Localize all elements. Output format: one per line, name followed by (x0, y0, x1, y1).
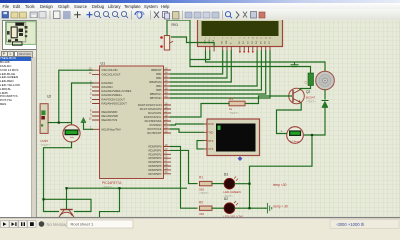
svg-text:R2: R2 (199, 200, 203, 204)
svg-text:RB3/PGM: RB3/PGM (149, 80, 162, 84)
wire mid-bottom branch (99, 188, 119, 217)
svg-text:BC547: BC547 (306, 96, 316, 100)
title bar (0, 0, 400, 3)
svg-text:RB5: RB5 (156, 88, 162, 92)
svg-text:OSC1/CLKIN: OSC1/CLKIN (101, 68, 117, 72)
svg-text:RC0/T1OSO/T1CKI: RC0/T1OSO/T1CKI (137, 103, 161, 107)
svg-text:-3000 +1000 th: -3000 +1000 th (336, 221, 365, 226)
svg-text:RA5/AN4/SS/C2OUT: RA5/AN4/SS/C2OUT (101, 102, 127, 106)
wire R2 to D2 (212, 207, 224, 209)
svg-text:<TEXT>: <TEXT> (229, 111, 239, 115)
wire D3 to column (234, 183, 249, 185)
svg-text:RC2/CCP1: RC2/CCP1 (148, 111, 162, 115)
svg-text:R1: R1 (199, 176, 203, 180)
wire VT1 RTS-CTS loop (197, 141, 203, 149)
virtual terminal VT1 (203, 119, 260, 156)
wire LCD VSS to ground rail (205, 51, 325, 71)
edit area left border (36, 20, 37, 217)
svg-text:RC7/RX/DT: RC7/RX/DT (147, 131, 162, 135)
wire diode to ammeter node (303, 108, 325, 135)
svg-text:Volts: Volts (69, 136, 73, 139)
wire voltmeter to Q1 (43, 142, 71, 212)
junction (ammeter node) (310, 134, 312, 136)
ground (top rail) (291, 62, 298, 67)
junction LM35 node (57, 122, 59, 124)
junction D3 column (248, 183, 250, 185)
svg-text:<TEXT>: <TEXT> (199, 191, 209, 195)
wire LCD D5 to RB5 (170, 51, 261, 90)
U1 left pin numbers (88, 67, 91, 130)
svg-text:LM35: LM35 (40, 139, 48, 143)
LCD1 pin stubs (205, 47, 270, 52)
LCD1 pin numbers (204, 38, 270, 40)
svg-text:RV1: RV1 (171, 23, 178, 27)
wire LCD D7 to RB7 (170, 51, 270, 98)
unconnected pin markers D0-D3 (239, 51, 254, 53)
wire D2 to ground (234, 207, 264, 209)
svg-text:12: 12 (260, 38, 262, 40)
inductor L1 (motor coil) (303, 73, 313, 86)
svg-text:RD6/PSP6: RD6/PSP6 (148, 168, 162, 172)
wire RA0 tap (71, 83, 92, 123)
svg-text:RC4/SDI/SDA: RC4/SDI/SDA (144, 119, 161, 123)
svg-text:RC6/TX/CK: RC6/TX/CK (147, 127, 161, 131)
wire node to OSC1 (58, 70, 92, 122)
svg-text:RE0/AN5/RD: RE0/AN5/RD (101, 110, 117, 114)
wire motor bottom / diode branch (324, 90, 326, 99)
wire ammeter node down to LED column (249, 135, 312, 208)
motor M1 (315, 71, 334, 90)
power arrow to MCLR (81, 118, 93, 130)
transistor Q2 BC547 (288, 88, 315, 104)
U1 right pin labels (137, 68, 161, 176)
svg-text:U2: U2 (47, 95, 51, 99)
svg-text:OSC2/CLKOUT: OSC2/CLKOUT (101, 73, 120, 77)
svg-text:Q2: Q2 (306, 90, 310, 94)
svg-text:7: 7 (239, 38, 240, 40)
svg-text:RB0/INT: RB0/INT (151, 68, 162, 72)
svg-text:RD2/PSP2: RD2/PSP2 (148, 152, 162, 156)
P L buttons + DEVICES header (1, 51, 8, 58)
wire LM35 out to voltmeter (48, 123, 71, 125)
LCD display LCD1 LM016L (197, 19, 282, 47)
wire Q1 right to mid rail (43, 199, 91, 211)
svg-text:RD4/PSP4: RD4/PSP4 (148, 160, 162, 164)
menu bar (0, 3, 400, 10)
svg-text:VDD: VDD (208, 39, 210, 44)
junction Q1 base rail (65, 187, 67, 189)
svg-text:D2: D2 (223, 197, 227, 201)
LED D2 LED-YELLOW (223, 197, 243, 219)
svg-text:U1: U1 (100, 62, 105, 66)
svg-text:RC5/SDO: RC5/SDO (149, 123, 161, 127)
voltmeter VM1 (62, 121, 79, 142)
svg-text:RD5/PSP5: RD5/PSP5 (148, 164, 162, 168)
wire RV1 top to VDD rail (167, 20, 210, 60)
resistor R2 (199, 200, 212, 216)
svg-text:13: 13 (264, 38, 266, 40)
svg-text:RA2/AN2/VREF-/CVREF: RA2/AN2/VREF-/CVREF (101, 89, 131, 93)
svg-text:8: 8 (243, 38, 244, 40)
svg-text:VSS: VSS (204, 39, 206, 44)
svg-text:temp <30: temp <30 (273, 183, 287, 187)
svg-text:R3: R3 (229, 97, 233, 101)
svg-text:11: 11 (256, 38, 258, 40)
svg-text:14: 14 (268, 38, 270, 40)
resistor R1 (199, 176, 212, 196)
ammeter AM1 (280, 127, 303, 144)
wire RD1 to R1 (170, 150, 197, 183)
potentiometer RV1 (160, 23, 178, 50)
wire RC6/TX to VT1 RXD (170, 124, 203, 125)
svg-text:MCLR/Vpp/THV: MCLR/Vpp/THV (101, 127, 120, 131)
junction D2 column (248, 207, 250, 209)
svg-text:+: + (280, 130, 282, 134)
toolbar (0, 9, 400, 22)
U1 left pin labels (101, 68, 131, 131)
svg-text:DC Amps: DC Amps (290, 140, 300, 143)
ground (bottom, rotated) (265, 203, 272, 213)
device list (0, 56, 31, 217)
wire LCD RS to RB1 (170, 51, 222, 74)
svg-text:LED-GREEN: LED-GREEN (223, 190, 241, 194)
svg-text:RB7/PGD: RB7/PGD (149, 96, 161, 100)
long rail (bottom) (66, 187, 186, 189)
svg-text:RA3/AN3/VREF+: RA3/AN3/VREF+ (101, 93, 122, 97)
bottom edge of edit area (0, 217, 400, 220)
svg-text:RB4: RB4 (156, 84, 162, 88)
svg-text:temp > 30: temp > 30 (273, 204, 287, 208)
wire R3 to Q2 base (245, 96, 292, 104)
LED D3 LED-GREEN (223, 172, 241, 198)
left panel (0, 21, 37, 218)
transistor Q1 (59, 210, 74, 218)
wire LCD D6 to RB6 (170, 51, 265, 94)
svg-text:330: 330 (199, 188, 204, 192)
svg-text:4: 4 (222, 38, 223, 40)
svg-text:RA4/T0CKI/C1OUT: RA4/T0CKI/C1OUT (101, 98, 125, 102)
microcontroller U1 PIC16F877A (99, 62, 163, 190)
origin marker (blue diamond) (237, 156, 242, 161)
sensor U2 LM35 (40, 95, 51, 148)
svg-text:RA0/AN0: RA0/AN0 (101, 81, 113, 85)
U1 right pins (163, 70, 170, 174)
svg-text:RD0/PSP0: RD0/PSP0 (148, 145, 162, 149)
svg-text:RTS: RTS (208, 140, 213, 143)
diode D4 (flyback) (322, 101, 328, 108)
wire RV1 wiper to LCD VEE (171, 37, 214, 47)
svg-text:3: 3 (213, 38, 214, 40)
schematic edit area (37, 20, 400, 217)
svg-text:RC1/T1OSI/CCP2: RC1/T1OSI/CCP2 (139, 107, 161, 111)
svg-text:RD1/PSP1: RD1/PSP1 (148, 148, 162, 152)
svg-text:6: 6 (230, 38, 231, 40)
edit area right strip (399, 20, 400, 217)
svg-text:1: 1 (204, 38, 205, 40)
U1 left pins (92, 70, 99, 129)
svg-text:<TEXT>: <TEXT> (40, 143, 50, 147)
wire R1 to D3 (212, 183, 224, 185)
svg-text:5: 5 (226, 38, 227, 40)
status bar (0, 219, 400, 230)
svg-text:RD3/PSP3: RD3/PSP3 (148, 156, 162, 160)
svg-text:RS: RS (221, 40, 223, 44)
svg-text:D3: D3 (223, 172, 227, 176)
wire LCD E to RB3 (170, 51, 231, 82)
wire VDD rail down to motor rail (190, 60, 311, 74)
wire RC7/RX to VT1 TXD (170, 129, 203, 132)
wire LCD RW to RB2 (170, 51, 227, 78)
U1 right pin numbers (164, 66, 167, 174)
svg-text:+: + (66, 121, 68, 125)
svg-text:RB1: RB1 (156, 72, 162, 76)
svg-text:RC3/SCK/SCL: RC3/SCK/SCL (143, 115, 161, 119)
svg-text:Root sheet 1: Root sheet 1 (71, 221, 94, 226)
svg-text:10: 10 (251, 38, 253, 40)
wire Q2 collector to inductor (300, 86, 311, 90)
wire LCD D4 to RB4 (170, 51, 257, 86)
wire Q2 emitter to ammeter (276, 103, 301, 134)
resistor R3 (229, 97, 245, 115)
list scrollbar strip (31, 57, 38, 217)
svg-text:1k: 1k (229, 107, 233, 111)
svg-text:RE1/AN6/WR: RE1/AN6/WR (101, 114, 117, 118)
svg-text:RA1/AN1: RA1/AN1 (101, 85, 113, 89)
wire RD0 to R2 (170, 147, 197, 209)
LCD1 pin name column (204, 39, 271, 44)
svg-text:TXD: TXD (208, 132, 213, 135)
svg-text:9: 9 (247, 38, 248, 40)
junction mid rail (118, 187, 120, 189)
wire R3 to RC3 (170, 104, 229, 118)
svg-text:RB6/PGC: RB6/PGC (149, 92, 161, 96)
svg-text:<TEXT>: <TEXT> (306, 100, 316, 104)
svg-text:2: 2 (209, 38, 210, 40)
overview minimap (2, 20, 39, 50)
svg-text:RB2: RB2 (156, 76, 162, 80)
svg-text:RXD: RXD (208, 123, 213, 126)
junction Q1 left (42, 198, 44, 200)
svg-text:CTS: CTS (208, 148, 213, 151)
wire Q1 base (65, 188, 67, 209)
svg-text:RE2/AN7/CS: RE2/AN7/CS (101, 118, 117, 122)
svg-text:RD7/PSP7: RD7/PSP7 (148, 172, 162, 176)
